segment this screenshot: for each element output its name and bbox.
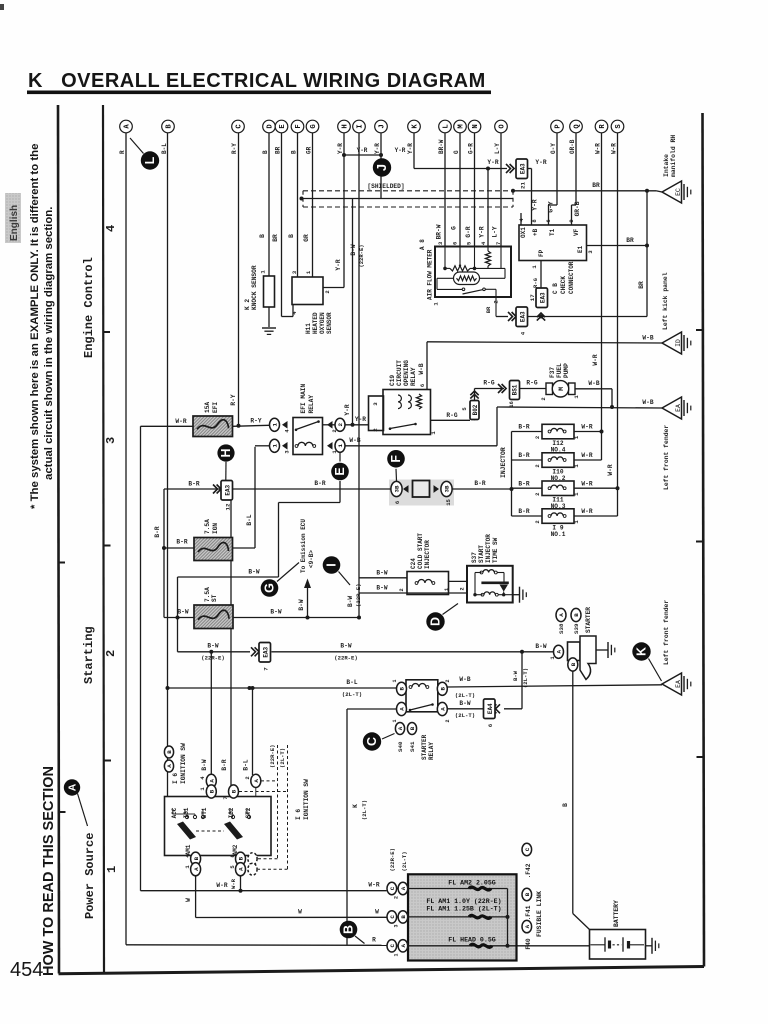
svg-text:TIME SW: TIME SW — [492, 537, 499, 563]
svg-text:K: K — [635, 647, 649, 656]
svg-text:F: F — [295, 124, 303, 128]
svg-text:FL AM1 1.25B (2L-T): FL AM1 1.25B (2L-T) — [426, 906, 501, 913]
svg-text:B-W: B-W — [207, 643, 218, 650]
svg-text:FUSIBLE LINK: FUSIBLE LINK — [536, 891, 543, 937]
svg-text:B: B — [440, 687, 447, 691]
svg-text:B-W: B-W — [376, 585, 387, 592]
svg-text:4: 4 — [291, 311, 298, 315]
svg-text:CHECK: CHECK — [560, 276, 567, 294]
svg-text:EA3: EA3 — [519, 311, 526, 322]
svg-text:(22R-E): (22R-E) — [201, 655, 225, 662]
svg-text:W-B: W-B — [418, 363, 425, 374]
svg-text:L-Y: L-Y — [492, 226, 499, 237]
svg-text:5: 5 — [461, 407, 468, 411]
svg-text:K 2: K 2 — [244, 299, 251, 310]
svg-text:2: 2 — [445, 719, 451, 722]
svg-text:ID: ID — [675, 339, 682, 347]
svg-text:B-W: B-W — [350, 244, 357, 255]
svg-text:Engine Control: Engine Control — [82, 257, 96, 358]
svg-text:Y-R: Y-R — [374, 143, 381, 154]
svg-text:NO.2: NO.2 — [551, 475, 566, 482]
svg-text:B-W: B-W — [347, 596, 354, 607]
svg-text:FL AM2 2.05G: FL AM2 2.05G — [448, 880, 496, 887]
svg-text:W: W — [185, 898, 192, 902]
svg-text:S38: S38 — [558, 623, 565, 634]
svg-text:E: E — [279, 124, 287, 129]
svg-text:6: 6 — [419, 384, 426, 387]
svg-text:B: B — [399, 687, 406, 691]
svg-text:A: A — [399, 707, 406, 711]
svg-text:RELAY: RELAY — [410, 367, 417, 386]
svg-text:7: 7 — [495, 242, 502, 245]
svg-text:W-R: W-R — [595, 143, 602, 154]
svg-text:K: K — [412, 124, 420, 129]
svg-text:4: 4 — [519, 331, 526, 335]
svg-text:W-R: W-R — [581, 424, 592, 431]
svg-text:Starting: Starting — [82, 626, 96, 684]
svg-text:W-R: W-R — [368, 882, 379, 889]
svg-text:CIRCUIT: CIRCUIT — [396, 360, 403, 386]
svg-text:6: 6 — [394, 501, 401, 504]
svg-text:BR: BR — [592, 182, 600, 189]
svg-text:K OVERALL ELECTRICAL WIRING: K OVERALL ELECTRICAL WIRING DIAGRAM — [28, 70, 486, 92]
svg-text:1: 1 — [272, 423, 279, 427]
svg-text:G: G — [310, 124, 318, 128]
svg-text:2: 2 — [337, 423, 344, 427]
svg-text:W-R: W-R — [175, 418, 186, 425]
svg-text:Y-R: Y-R — [395, 147, 406, 154]
svg-text:* The system shown here is an: * The system shown here is an EXAMPLE ON… — [29, 144, 41, 509]
svg-text:1: 1 — [337, 444, 344, 448]
svg-text:EA3: EA3 — [224, 484, 231, 495]
svg-text:21: 21 — [519, 182, 526, 189]
svg-text:OX1: OX1 — [520, 227, 527, 238]
svg-text:Left kick panel: Left kick panel — [662, 272, 669, 330]
svg-text:R-Y: R-Y — [231, 143, 238, 154]
svg-text:3: 3 — [587, 250, 594, 254]
svg-text:3: 3 — [393, 924, 399, 927]
svg-text:7.5A: 7.5A — [204, 587, 211, 602]
svg-text:B: B — [231, 789, 238, 793]
svg-text:(22R-E): (22R-E) — [334, 655, 358, 662]
svg-text:454: 454 — [10, 959, 43, 981]
svg-text:4: 4 — [104, 225, 118, 232]
svg-text:ST2: ST2 — [245, 807, 252, 818]
svg-text:C24: C24 — [410, 558, 417, 569]
svg-text:(2L-T): (2L-T) — [401, 851, 408, 871]
svg-text:R-G: R-G — [532, 277, 539, 288]
svg-text:B: B — [573, 613, 580, 617]
svg-text:1: 1 — [105, 866, 119, 873]
svg-text:B-W: B-W — [340, 643, 351, 650]
svg-text:1: 1 — [531, 265, 538, 269]
svg-text:B-W: B-W — [177, 609, 188, 616]
svg-text:H: H — [219, 448, 233, 457]
svg-text:6: 6 — [451, 242, 458, 245]
svg-text:A: A — [166, 764, 173, 768]
svg-text:IGN: IGN — [212, 523, 219, 534]
svg-text:NO.4: NO.4 — [551, 446, 566, 453]
svg-text:R-G: R-G — [526, 380, 537, 387]
svg-text:Y-R: Y-R — [535, 159, 546, 166]
svg-text:N: N — [472, 124, 480, 128]
svg-text:2: 2 — [534, 436, 541, 439]
svg-text:actual circuit shown in the wi: actual circuit shown in the wiring diagr… — [43, 207, 55, 480]
svg-text:GR-B: GR-B — [574, 201, 581, 216]
svg-text:GR: GR — [306, 146, 313, 154]
svg-text:Y-R: Y-R — [487, 159, 498, 166]
svg-text:E: E — [333, 467, 347, 475]
svg-text:1: 1 — [272, 444, 279, 448]
svg-text:A: A — [193, 867, 200, 871]
svg-text:Q: Q — [574, 124, 582, 129]
svg-text:2: 2 — [459, 587, 466, 590]
svg-text:1: 1 — [184, 865, 191, 869]
svg-text:B: B — [166, 750, 173, 754]
svg-text:BR: BR — [638, 281, 645, 289]
svg-text:HEATED: HEATED — [312, 312, 319, 334]
svg-text:EA: EA — [675, 404, 682, 412]
svg-text:BR-W: BR-W — [438, 139, 445, 154]
svg-text:B: B — [409, 726, 416, 730]
svg-text:16: 16 — [508, 401, 515, 408]
svg-text:C19: C19 — [389, 375, 396, 386]
svg-text:INJECTOR: INJECTOR — [424, 540, 431, 569]
svg-text:RELAY: RELAY — [428, 742, 435, 760]
svg-text:2: 2 — [324, 290, 331, 293]
svg-text:R-Y: R-Y — [250, 418, 261, 425]
svg-text:G-Y: G-Y — [550, 143, 557, 154]
svg-text:IGNITION SW: IGNITION SW — [180, 743, 187, 784]
svg-text:6: 6 — [487, 723, 494, 727]
svg-text:B: B — [400, 915, 407, 919]
svg-text:S39: S39 — [573, 623, 580, 634]
svg-text:(2L-T): (2L-T) — [455, 692, 475, 699]
svg-text:EFI: EFI — [212, 402, 219, 413]
svg-text:English: English — [9, 205, 20, 241]
svg-text:Y-R: Y-R — [337, 143, 344, 154]
svg-text:17: 17 — [529, 294, 536, 301]
svg-text:C: C — [236, 124, 244, 129]
svg-text:B-L: B-L — [161, 143, 168, 154]
svg-text:1: 1 — [393, 953, 399, 956]
svg-text:RELAY: RELAY — [308, 395, 315, 414]
svg-text:<9-B>: <9-B> — [308, 550, 315, 568]
svg-text:C: C — [524, 847, 531, 851]
svg-text:G-R: G-R — [465, 226, 472, 237]
svg-text:5: 5 — [229, 865, 236, 869]
svg-text:W-B: W-B — [642, 335, 653, 342]
svg-text:A: A — [67, 783, 79, 791]
svg-text:IG1: IG1 — [183, 807, 190, 818]
svg-text:2: 2 — [104, 650, 118, 657]
svg-text:BATTERY: BATTERY — [613, 900, 620, 927]
svg-text:1: 1 — [392, 679, 398, 682]
svg-text:BR: BR — [275, 146, 282, 154]
svg-text:3: 3 — [437, 241, 444, 245]
svg-text:.F41: .F41 — [525, 905, 532, 920]
svg-text:A: A — [524, 924, 531, 928]
svg-text:AIR FLOW METER: AIR FLOW METER — [427, 249, 434, 300]
svg-text:1: 1 — [392, 719, 398, 722]
svg-text:B: B — [288, 234, 295, 238]
svg-text:EFI MAIN: EFI MAIN — [300, 384, 307, 414]
svg-text:NO.3: NO.3 — [551, 503, 566, 510]
svg-text:S41: S41 — [409, 741, 416, 752]
svg-text:A: A — [209, 779, 216, 783]
svg-text:I 6: I 6 — [172, 773, 179, 784]
svg-text:(22R-E): (22R-E) — [269, 745, 276, 769]
svg-text:Y-R: Y-R — [357, 147, 368, 154]
svg-text:W-R: W-R — [607, 464, 614, 475]
svg-text:2: 2 — [540, 397, 547, 400]
svg-text:W-B: W-B — [642, 399, 653, 406]
svg-text:3: 3 — [372, 402, 379, 406]
svg-text:B-W: B-W — [376, 570, 387, 577]
svg-text:[SHIELDED]: [SHIELDED] — [367, 183, 404, 190]
svg-text:2: 2 — [534, 464, 541, 467]
svg-text:BR: BR — [626, 237, 634, 244]
svg-text:AM2: AM2 — [232, 844, 239, 855]
svg-text:3B: 3B — [444, 485, 451, 492]
svg-text:B-W: B-W — [459, 700, 470, 707]
svg-text:START: START — [478, 545, 485, 563]
svg-text:A: A — [238, 867, 245, 871]
svg-text:INJECTOR: INJECTOR — [500, 447, 507, 478]
svg-text:1: 1 — [433, 302, 440, 306]
svg-text:M: M — [558, 387, 565, 391]
svg-text:L: L — [143, 156, 157, 164]
svg-text:Y-R: Y-R — [335, 259, 342, 270]
svg-text:15: 15 — [445, 499, 452, 506]
svg-text:A 8: A 8 — [419, 239, 426, 250]
svg-text:H11: H11 — [305, 323, 312, 334]
svg-text:B-R: B-R — [518, 508, 529, 515]
svg-text:K: K — [352, 804, 359, 808]
svg-text:D: D — [429, 617, 443, 626]
svg-text:B-L: B-L — [243, 759, 250, 770]
svg-text:B-R: B-R — [518, 452, 529, 459]
svg-text:B-R: B-R — [176, 539, 187, 546]
svg-text:BR: BR — [485, 306, 492, 313]
svg-text:B: B — [291, 150, 298, 154]
svg-text:OXYGEN: OXYGEN — [319, 312, 326, 334]
svg-text:(22R-E): (22R-E) — [389, 848, 396, 872]
svg-text:R: R — [119, 150, 126, 154]
svg-text:C: C — [389, 944, 396, 948]
svg-text:GR-B: GR-B — [569, 139, 576, 154]
svg-text:C B: C B — [552, 283, 559, 294]
svg-text:T1: T1 — [549, 228, 556, 236]
svg-text:To Emission ECU: To Emission ECU — [300, 519, 307, 573]
svg-text:GR: GR — [303, 234, 310, 242]
svg-text:L: L — [443, 124, 451, 128]
svg-text:B-W: B-W — [298, 599, 305, 610]
svg-text:I 6: I 6 — [295, 809, 302, 820]
svg-text:B-W: B-W — [248, 569, 259, 576]
svg-text:SENSOR: SENSOR — [326, 312, 333, 334]
svg-text:NO.1: NO.1 — [551, 531, 566, 538]
svg-text:W-R: W-R — [581, 508, 592, 515]
svg-text:6: 6 — [545, 219, 552, 222]
svg-text:B-R: B-R — [518, 480, 529, 487]
svg-text:W-R: W-R — [216, 882, 227, 889]
svg-text:2: 2 — [493, 300, 500, 303]
svg-text:PUMP: PUMP — [563, 363, 570, 378]
svg-text:(2L-T): (2L-T) — [522, 668, 529, 688]
svg-text:Y-R: Y-R — [355, 416, 366, 423]
svg-text:EA3: EA3 — [539, 292, 546, 303]
svg-text:F37: F37 — [549, 367, 556, 378]
svg-text:I: I — [357, 124, 365, 128]
svg-text:AM1: AM1 — [185, 844, 192, 855]
svg-text:B-R: B-R — [188, 481, 199, 488]
svg-text:Power Source: Power Source — [83, 833, 97, 919]
svg-text:B-L: B-L — [246, 514, 253, 525]
svg-text:EA: EA — [675, 680, 682, 688]
svg-text:2: 2 — [244, 776, 251, 779]
svg-text:A: A — [253, 779, 260, 783]
svg-text:B-R: B-R — [518, 424, 529, 431]
svg-text:R: R — [372, 937, 376, 944]
svg-text:A: A — [400, 944, 407, 948]
svg-text:W-B: W-B — [349, 437, 360, 444]
svg-text:OPENING: OPENING — [403, 360, 410, 386]
svg-text:(22R-E): (22R-E) — [355, 584, 362, 608]
svg-text:B: B — [524, 892, 531, 896]
svg-text:KNOCK SENSOR: KNOCK SENSOR — [251, 265, 258, 310]
svg-text:C: C — [365, 737, 379, 746]
svg-text:W-R: W-R — [581, 480, 592, 487]
svg-text:.F42: .F42 — [525, 863, 532, 878]
svg-text:Y-R: Y-R — [479, 226, 486, 237]
svg-text:STARTER: STARTER — [585, 607, 592, 633]
svg-text:B: B — [342, 925, 356, 934]
svg-text:D: D — [267, 124, 275, 129]
svg-text:INJECTOR: INJECTOR — [485, 534, 492, 563]
svg-text:G: G — [263, 583, 277, 593]
svg-text:FL HEAD 0.5G: FL HEAD 0.5G — [448, 937, 496, 944]
svg-text:EC: EC — [675, 188, 682, 196]
svg-text:ST1: ST1 — [201, 807, 208, 818]
svg-text:4: 4 — [199, 776, 206, 780]
svg-text:1: 1 — [260, 270, 267, 274]
svg-text:B02: B02 — [472, 404, 479, 415]
svg-text:B-W: B-W — [535, 643, 546, 650]
svg-text:L-Y: L-Y — [494, 143, 501, 154]
svg-text:B: B — [570, 662, 577, 666]
svg-text:E1: E1 — [577, 245, 584, 253]
svg-text:B-W: B-W — [201, 759, 208, 770]
svg-text:W-R: W-R — [581, 452, 592, 459]
svg-text:O: O — [499, 124, 507, 129]
svg-text:A: A — [400, 886, 407, 890]
svg-text:7.5A: 7.5A — [204, 519, 211, 534]
svg-text:4: 4 — [284, 429, 291, 433]
svg-text:B: B — [193, 856, 200, 860]
svg-text:EA3: EA3 — [519, 163, 526, 174]
svg-text:Y-R: Y-R — [532, 199, 539, 210]
svg-text:2: 2 — [445, 679, 451, 682]
svg-text:M: M — [458, 124, 466, 128]
svg-text:9: 9 — [568, 219, 575, 222]
svg-text:B-R: B-R — [314, 480, 325, 487]
svg-text:12: 12 — [224, 503, 231, 510]
svg-text:R-G: R-G — [446, 412, 457, 419]
svg-text:IG2: IG2 — [228, 807, 235, 818]
svg-text:(22R-E): (22R-E) — [358, 244, 365, 267]
svg-text:ST: ST — [211, 594, 218, 602]
svg-text:2: 2 — [534, 493, 541, 496]
svg-text:B: B — [259, 234, 266, 238]
svg-text:Intake: Intake — [663, 154, 670, 177]
svg-text:S: S — [615, 124, 623, 129]
svg-text:W: W — [298, 909, 302, 916]
svg-text:2: 2 — [398, 588, 405, 591]
svg-text:EA3: EA3 — [262, 646, 269, 657]
svg-text:2: 2 — [393, 896, 399, 899]
svg-text:B-L: B-L — [346, 679, 357, 686]
svg-text:B-R: B-R — [221, 759, 228, 770]
svg-text:S40: S40 — [397, 741, 404, 752]
svg-text:15A: 15A — [204, 402, 211, 413]
svg-text:B: B — [209, 789, 216, 793]
svg-text:G-Y: G-Y — [548, 201, 555, 212]
svg-text:H: H — [342, 124, 350, 128]
svg-text:(2L-T): (2L-T) — [455, 712, 475, 719]
svg-text:B-R: B-R — [154, 526, 161, 537]
svg-text:STARTER: STARTER — [421, 734, 428, 760]
svg-text:COLD START: COLD START — [417, 533, 424, 569]
svg-text:(2L-T): (2L-T) — [361, 800, 368, 820]
svg-text:J: J — [379, 124, 387, 128]
svg-text:VF: VF — [573, 228, 580, 236]
svg-text:G: G — [451, 226, 458, 230]
svg-text:A: A — [440, 707, 447, 711]
svg-text:F: F — [389, 455, 403, 463]
svg-text:W-R: W-R — [230, 878, 237, 889]
svg-text:R: R — [599, 124, 607, 129]
svg-text:3: 3 — [104, 437, 118, 444]
svg-text:2: 2 — [372, 428, 379, 432]
svg-text:+B: +B — [532, 228, 539, 236]
svg-text:B: B — [562, 803, 569, 807]
svg-text:5: 5 — [465, 241, 472, 245]
svg-text:Y-R: Y-R — [407, 143, 414, 154]
svg-text:EA4: EA4 — [487, 703, 494, 714]
svg-text:BR-W: BR-W — [436, 224, 443, 239]
svg-text:C: C — [389, 886, 396, 890]
svg-text:W-B: W-B — [459, 676, 470, 683]
svg-text:B-W: B-W — [270, 609, 281, 616]
svg-text:B: B — [166, 124, 174, 129]
svg-text:(2L-T): (2L-T) — [279, 748, 286, 768]
svg-text:BS1: BS1 — [512, 384, 519, 395]
svg-text:B-W: B-W — [512, 670, 519, 681]
svg-text:(2L-T): (2L-T) — [342, 691, 362, 698]
svg-text:A: A — [124, 124, 132, 129]
svg-text:3B: 3B — [394, 485, 401, 492]
svg-text:IGNITION SW: IGNITION SW — [303, 779, 310, 820]
svg-text:W-B: W-B — [588, 380, 599, 387]
svg-text:7: 7 — [222, 796, 229, 799]
svg-text:ACC: ACC — [171, 807, 178, 818]
svg-text:W: W — [375, 909, 379, 916]
svg-text:B: B — [262, 150, 269, 154]
svg-text:2: 2 — [534, 520, 541, 523]
svg-text:A: A — [397, 726, 404, 730]
svg-text:FL AM1 1.0Y (22R-E): FL AM1 1.0Y (22R-E) — [426, 898, 501, 905]
